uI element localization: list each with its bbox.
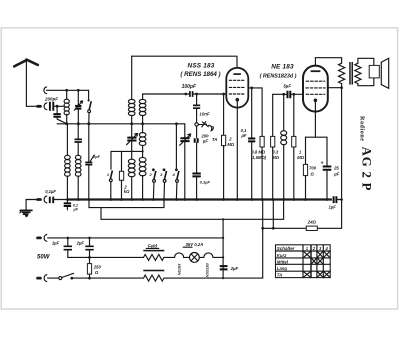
mains switch [48,273,74,279]
capacitor 0.1uF coupling [248,88,255,200]
ground bus [66,198,332,201]
coil L2 [65,124,71,200]
capacitor 2uF mains [85,238,93,258]
wire y151 [111,150,144,152]
resistor 24 Ohm [306,226,317,230]
capacitor 5uF [288,91,291,98]
wire [199,256,204,258]
wire grid1 [143,93,226,96]
band switch S0 [88,90,92,124]
label 1MOhm [297,149,304,160]
svg-text:µF: µF [73,208,79,212]
mains plug top [36,235,47,242]
wire W3 [101,200,284,220]
screen wire [328,86,343,89]
svg-text:NSS183: NSS183 [206,262,210,277]
TA jack [195,122,213,131]
svg-text:TA: TA [212,137,218,142]
hum coil zigzag [144,275,164,281]
label 0.1uF coupling [241,128,248,138]
svg-text:24Ω: 24Ω [307,220,317,225]
label 200pF TA [201,134,218,144]
capacitor 200pF [50,102,65,111]
coil L1 antenna [64,90,69,124]
svg-text:0,1µF: 0,1µF [200,179,211,184]
capacitor 25uF [321,137,332,199]
wire [184,256,190,258]
svg-text:1µF: 1µF [329,205,337,210]
mains plug bottom [36,275,47,282]
label 25uF [333,166,340,177]
B+ rail [340,84,343,229]
svg-text:kΩ: kΩ [124,189,130,194]
svg-text:MΩ: MΩ [227,142,234,147]
capacitor 0.1uF input [50,197,68,204]
ground wire [26,199,36,201]
capacitor 0.1uF cathode [192,174,200,200]
antenna [14,59,38,106]
mains top wire [48,237,224,240]
svg-text:1µF: 1µF [52,241,60,246]
node V223 [222,218,224,279]
tube U1 NSS183 [226,68,248,108]
svg-text:35V 0,2A: 35V 0,2A [185,242,203,247]
svg-text:Schalter: Schalter [277,246,295,251]
svg-text:µF: µF [333,171,339,176]
svg-text:MΩ: MΩ [272,155,279,160]
variable capacitor gang1 [127,124,138,159]
anode1 wire [248,87,262,90]
mains bottom wire right [164,277,263,279]
capacitor 1uF mains [64,238,72,258]
ground plug [36,196,47,203]
capacitor 0.1uF shunt [64,200,71,210]
label 0.8MOhm [251,149,267,160]
svg-text:50W: 50W [37,254,51,260]
switch 4 [175,124,179,200]
svg-text:NE183: NE183 [177,263,181,275]
wire grid2 [273,93,304,96]
svg-text:25: 25 [333,166,339,171]
coil LA [128,56,135,124]
svg-text:2µF: 2µF [76,241,85,246]
switch 3 [163,168,167,199]
coil LE [139,157,146,199]
svg-text:100pF: 100pF [182,84,197,90]
heater hop NE183 [175,253,184,257]
label Feld [146,243,159,248]
label 2kOhm [123,184,130,194]
upper test jack [44,87,89,94]
svg-text:Lang: Lang [277,266,288,271]
secondary loop wires [358,58,374,85]
svg-text:Feld: Feld [148,243,157,248]
transformer T1 primary [339,63,345,83]
svg-text:10nF: 10nF [199,112,210,117]
antenna plug [36,103,47,110]
trimmer capacitor [74,90,82,124]
field coil zigzag [144,254,164,260]
svg-text:NSS 183: NSS 183 [188,63,215,70]
label 700 Ohm [309,166,317,177]
choke coil [281,94,287,199]
coil LB [139,94,146,124]
wire [213,256,223,258]
capacitor 10nF [193,94,200,123]
tube U2 NE183 [303,66,328,112]
variable capacitor gang2 [180,124,191,200]
label 0.1uF shunt [73,203,79,211]
wire 24 Ohm line [261,200,341,279]
svg-text:NE 183: NE 183 [271,64,294,71]
capacitor 100pF [190,91,193,97]
coil L3 [75,155,81,199]
label 0.3MOhm [272,149,279,160]
svg-text:Radione: Radione [358,116,364,142]
capacitor small below 200pF [53,106,66,123]
coil LC [139,124,146,158]
capacitor 200pF TA [195,126,198,173]
resistor 2MOhm [222,94,226,200]
plate2 top wire [315,58,341,66]
switch table [276,245,331,278]
speaker [369,58,389,88]
svg-text:2pF: 2pF [92,155,100,159]
capacitor 1uF bus [334,196,342,203]
svg-text:0,1µF: 0,1µF [45,189,56,194]
svg-text:2: 2 [228,136,232,141]
pilot lamp [190,253,200,263]
hum coil core bar [143,270,164,272]
svg-text:( RENS 1864 ): ( RENS 1864 ) [180,71,220,78]
resistor 0.3MOhm [271,94,275,199]
switch 2 [152,168,156,199]
transformer core [349,62,353,85]
label 250 Ohm [93,264,102,275]
wire antenna to plug [26,105,36,107]
capacitor on x78 [75,124,82,156]
resistor 2kOhm [119,151,123,199]
coil LD [128,159,135,199]
svg-text:5µF: 5µF [283,84,291,89]
transformer T1 secondary [355,63,361,83]
svg-text:TA: TA [277,273,282,278]
wire to lamp [164,256,175,258]
label 2MOhm [227,136,234,147]
ground symbol [20,200,33,218]
svg-text:(1,5MΩ): (1,5MΩ) [251,155,267,160]
capacitor 2uF heater [220,266,228,269]
svg-text:+: + [321,161,324,167]
svg-text:Kurz: Kurz [277,253,287,258]
switch and capacitor 2pF branch [85,124,94,200]
svg-text:700: 700 [309,166,317,171]
label 35V 0,2A [183,242,203,247]
cathode2 circuit [306,102,328,137]
resistor 250 Ohm [87,257,91,278]
svg-text:0,3: 0,3 [272,149,278,154]
svg-text:Ω: Ω [310,171,315,176]
wire top y56 [132,56,237,68]
svg-text:( RENS1823d ): ( RENS1823d ) [260,74,297,80]
heater hop NSS183 [204,253,213,257]
svg-text:AG 2 P: AG 2 P [359,147,373,192]
field coil core bar [143,250,164,252]
mains bottom wire [72,277,144,280]
svg-text:µF: µF [202,139,208,144]
resistor 0.8MOhm [260,88,264,200]
heater wire [68,256,144,259]
svg-text:250: 250 [93,264,102,269]
resistor 700 Ohm [303,137,307,199]
svg-text:0,8 MΩ: 0,8 MΩ [251,149,265,154]
svg-text:Ω: Ω [94,270,99,275]
cathode line tube1 [236,102,238,200]
switch 1 [109,151,112,199]
svg-text:2µF: 2µF [230,266,239,271]
svg-text:Mittel: Mittel [277,259,289,264]
svg-text:200pF: 200pF [44,97,58,102]
resistor 1MOhm [292,94,296,199]
node wire y124 [57,122,185,125]
svg-text:µF: µF [241,133,247,138]
wire W2 [89,200,164,208]
svg-text:MΩ: MΩ [297,155,304,160]
